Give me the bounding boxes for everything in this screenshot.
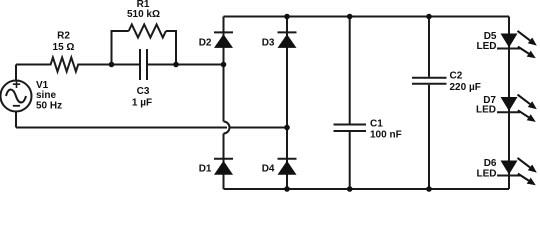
- svg-text:LED: LED: [477, 169, 497, 180]
- wire: R1 branch left riser: [112, 31, 129, 65]
- capacitor C3: [140, 49, 147, 80]
- wire: bottom rail: [224, 188, 510, 190]
- wire: return wire left segment: [16, 127, 227, 129]
- diode D2: [214, 32, 233, 48]
- node: C1 top junction dot: [347, 14, 353, 20]
- wire: hop over return wire: [224, 122, 230, 134]
- diode D1: [214, 159, 233, 175]
- wire: R2 to node A: [82, 64, 112, 66]
- node: C2 top junction dot: [426, 14, 432, 20]
- resistor R1: [129, 25, 166, 38]
- wire: V1 bottom lead: [15, 112, 17, 128]
- svg-text:C1: C1: [370, 119, 383, 130]
- LED D5: [497, 31, 537, 58]
- wire: R1 branch right riser: [166, 31, 176, 65]
- wire: bridge right rail: [286, 17, 288, 190]
- capacitor C2: [412, 78, 447, 84]
- wire: C1 rail lower: [349, 132, 351, 189]
- source V1 minus sign: [13, 105, 20, 107]
- wire: return wire right segment: [229, 127, 287, 129]
- svg-text:100 nF: 100 nF: [370, 129, 402, 140]
- svg-text:D3: D3: [262, 37, 275, 48]
- svg-text:220 µF: 220 µF: [450, 82, 481, 93]
- svg-text:1 µF: 1 µF: [132, 98, 152, 109]
- resistor R2: [46, 58, 83, 72]
- svg-text:510 kΩ: 510 kΩ: [127, 9, 160, 20]
- node: right rail top junction dot: [284, 14, 290, 20]
- diode D3: [278, 32, 297, 48]
- source V1 plus sign: [13, 81, 20, 89]
- wire: C1 rail upper: [349, 17, 351, 124]
- LED D6: [497, 158, 537, 185]
- svg-text:50 Hz: 50 Hz: [36, 100, 62, 111]
- svg-text:LED: LED: [476, 105, 496, 116]
- wire: top rail: [224, 16, 510, 18]
- svg-text:C3: C3: [137, 86, 150, 97]
- node: C1 bottom junction dot: [347, 186, 353, 192]
- node B junction dot: [173, 62, 179, 68]
- svg-text:R2: R2: [57, 31, 70, 42]
- svg-text:D4: D4: [262, 164, 275, 175]
- node: right rail bottom junction dot: [284, 186, 290, 192]
- capacitor C1: [334, 125, 367, 132]
- svg-text:15 Ω: 15 Ω: [53, 42, 75, 53]
- node: return to right rail junction dot: [284, 125, 290, 131]
- node A junction dot: [109, 62, 115, 68]
- LED D7: [497, 95, 537, 122]
- svg-text:C2: C2: [450, 71, 463, 82]
- diode D4: [278, 159, 297, 175]
- node: input to left rail junction dot: [221, 62, 227, 68]
- source V1 sine wave: [6, 89, 26, 102]
- wire: LED rail: [508, 17, 510, 190]
- wire: node A to C3 left plate: [112, 64, 140, 66]
- wire: V1 top lead: [15, 65, 17, 81]
- svg-text:D1: D1: [199, 164, 212, 175]
- wire: main input wire V1 to R2: [16, 64, 46, 66]
- wire: C3 right plate to node B: [148, 64, 176, 66]
- svg-text:D6: D6: [484, 158, 497, 169]
- wire: bridge left rail lower: [223, 134, 225, 190]
- node: C2 bottom junction dot: [426, 186, 432, 192]
- wire: C2 rail upper: [428, 17, 430, 77]
- wire: node B to bridge left rail: [176, 64, 224, 66]
- svg-text:D2: D2: [199, 37, 212, 48]
- svg-text:LED: LED: [477, 41, 497, 52]
- wire: C2 rail lower: [428, 85, 430, 189]
- wire: bridge left rail upper: [223, 17, 225, 122]
- source V1 circle: [1, 81, 32, 112]
